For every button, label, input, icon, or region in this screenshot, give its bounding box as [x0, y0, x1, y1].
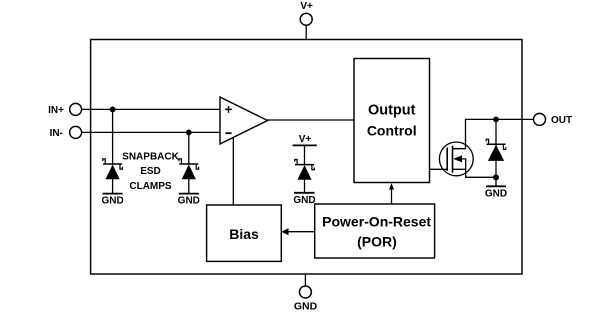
svg-text:Bias: Bias — [229, 226, 259, 242]
svg-text:IN+: IN+ — [48, 105, 64, 116]
svg-text:SNAPBACK: SNAPBACK — [122, 151, 179, 162]
svg-text:V+: V+ — [300, 1, 313, 12]
svg-text:IN-: IN- — [50, 128, 63, 139]
svg-text:V+: V+ — [299, 134, 312, 145]
svg-text:GND: GND — [485, 188, 507, 199]
svg-text:Output: Output — [368, 103, 416, 119]
svg-text:(POR): (POR) — [357, 233, 397, 249]
svg-text:GND: GND — [293, 195, 315, 206]
svg-text:Power-On-Reset: Power-On-Reset — [322, 213, 431, 229]
svg-text:ESD: ESD — [140, 166, 161, 177]
svg-text:CLAMPS: CLAMPS — [129, 181, 172, 192]
svg-text:GND: GND — [101, 196, 123, 207]
svg-text:GND: GND — [294, 301, 318, 313]
svg-text:Control: Control — [367, 123, 417, 139]
svg-text:OUT: OUT — [551, 115, 572, 126]
svg-text:GND: GND — [178, 196, 200, 207]
